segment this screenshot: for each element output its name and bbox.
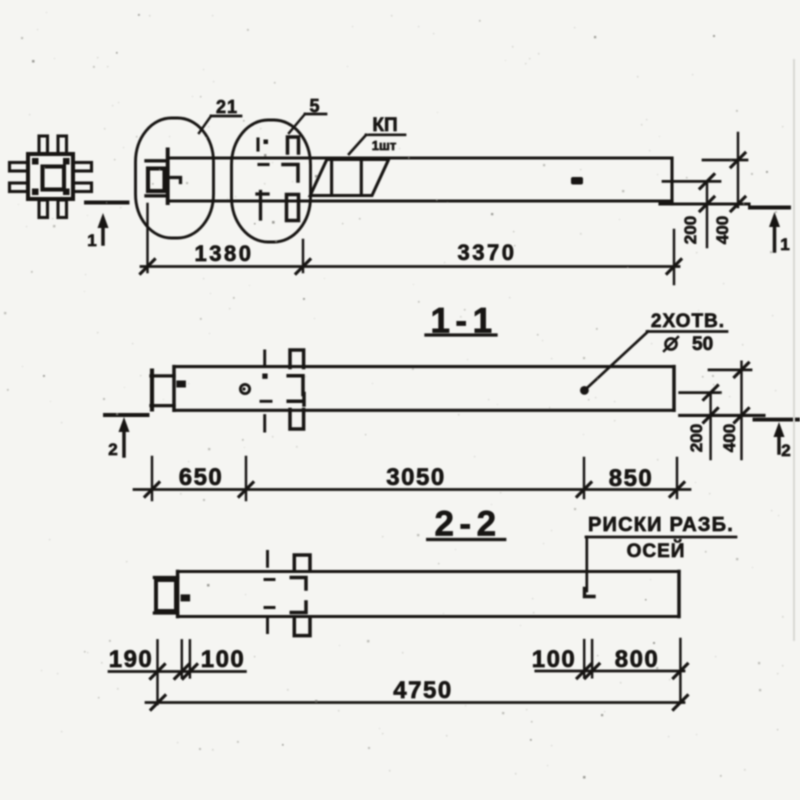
section 1-1: left hook lines <box>151 376 174 406</box>
svg-text:800: 800 <box>615 646 660 673</box>
section 1-1 detail: top staple <box>290 350 304 368</box>
svg-text:400: 400 <box>720 424 739 452</box>
svg-text:100: 100 <box>532 646 577 673</box>
svg-text:2: 2 <box>108 440 117 459</box>
plan view: 400 dimension line vertical <box>737 133 739 207</box>
section 1-1 right: 400 top tick <box>709 369 751 372</box>
svg-text:100: 100 <box>201 646 246 673</box>
svg-text:1: 1 <box>780 235 789 254</box>
section 2-2: dashed centerline <box>266 552 269 633</box>
plan view right: 200 mid tick <box>663 180 720 183</box>
KP plate dividers <box>332 160 362 196</box>
section 2-2 dims left: extension lines <box>158 640 190 704</box>
plan dims: extension lines <box>148 204 675 284</box>
RISKI label underline <box>586 536 736 539</box>
svg-text:21: 21 <box>216 97 238 117</box>
svg-text:200: 200 <box>681 216 700 244</box>
svg-text:1: 1 <box>87 231 96 250</box>
plan view detail 5: upper hook <box>283 165 298 182</box>
section 1-1: left hook edge <box>150 371 154 410</box>
leader for label 5 <box>289 114 305 133</box>
column cross-section symbol: left rebar stubs <box>10 163 28 172</box>
section mark 2 right: line <box>755 418 799 422</box>
svg-text:4750: 4750 <box>393 677 452 704</box>
section 1-1: 400 dim vertical <box>740 362 742 459</box>
overall dim 4750: slashes <box>151 696 687 710</box>
plan view right: bottom tick <box>660 202 749 205</box>
section 1-1 detail: lower hook <box>288 394 304 406</box>
section mark 1 left: line <box>86 201 128 205</box>
section 1-1: 200 dim vertical <box>709 393 711 459</box>
section 1-1: dashed centerline <box>263 351 266 431</box>
svg-text:3370: 3370 <box>458 240 517 265</box>
section 1-1: left dowel blob <box>176 381 186 388</box>
section 1-1: beam outline <box>174 367 674 411</box>
label 21 underline <box>211 115 241 118</box>
section 2-2: left dowel blob <box>181 594 191 601</box>
plan dims: dimension line 1380/3370 <box>141 265 679 268</box>
leader for label 21 <box>199 116 211 133</box>
section 1-1 right: bottom tick <box>680 414 764 417</box>
section mark 2 left: arrow <box>122 430 126 456</box>
plan view: left lifting hook lines <box>146 161 168 196</box>
section mark 1 right: line <box>750 206 789 210</box>
svg-text:РИСКИ РАЗБ.: РИСКИ РАЗБ. <box>588 514 734 536</box>
section 1-1 dims: dimension line <box>134 488 690 491</box>
svg-text:КП: КП <box>372 115 397 136</box>
section 1-1: dim slashes <box>704 363 749 423</box>
section 2-2 detail: bottom staple <box>294 617 310 636</box>
leader 2 holes <box>587 332 648 389</box>
balloon ellipse detail 21 <box>136 118 214 238</box>
KP label underline <box>366 133 405 136</box>
section 2-2: beam edges <box>178 572 679 617</box>
plan dims: slash ticks <box>141 260 682 274</box>
section 1-1 detail: bottom staple <box>290 410 304 430</box>
section 2-2 label underline <box>428 538 505 541</box>
column cross-section symbol: right rebar stubs <box>74 163 92 172</box>
section 1-1 dims: extension lines <box>152 457 677 500</box>
section 1-1: hole dot right <box>580 386 589 395</box>
section mark 2 right: arrow <box>777 433 781 453</box>
section 1-1 label underline <box>426 333 496 336</box>
plan view: left dowel bar <box>170 178 181 183</box>
column cross-section symbol: inner square <box>43 167 65 190</box>
plan view: axis mark blob at right <box>571 177 583 185</box>
plan view detail 5: small dot <box>264 140 269 145</box>
section 2-2 detail: top staple <box>294 555 310 571</box>
svg-text:2: 2 <box>781 441 790 460</box>
overall dim 4750: dimension line <box>146 701 684 704</box>
axis mark on beam 2-2 <box>585 589 595 597</box>
section 2-2 detail: lower hook <box>291 602 306 613</box>
section mark 2 left: line <box>105 413 148 417</box>
section 1-1 dims: slash ticks <box>145 483 684 497</box>
svg-text:1-1: 1-1 <box>430 302 497 341</box>
plan view detail 5: bottom box <box>287 195 299 221</box>
plan view: column body outline <box>168 158 672 201</box>
column cross-section symbol top-left: outer square <box>28 154 73 199</box>
svg-text:190: 190 <box>109 646 154 673</box>
section 1-1: beam left and right edges <box>174 367 674 411</box>
balloon ellipse detail 5 <box>232 120 311 242</box>
svg-text:1380: 1380 <box>195 241 254 266</box>
plan view: left hook box <box>148 169 165 192</box>
section 2-2 dims right: slashes <box>577 664 687 678</box>
svg-text:2ХОТВ.: 2ХОТВ. <box>651 311 725 332</box>
scanner streak right edge <box>793 60 795 640</box>
section 2-2: beam outline <box>178 572 679 617</box>
section 1-1 detail: upper hook <box>288 376 303 395</box>
plan view: column right end edge <box>670 159 673 205</box>
plan view: 200 dimension line vertical <box>706 181 708 247</box>
section 1-1 right: 200 mid tick <box>680 391 721 394</box>
column cross-section symbol: corner dots <box>32 158 70 195</box>
column cross-section symbol: bottom rebar stubs <box>39 200 48 218</box>
section 2-2: left hook lines <box>154 578 177 614</box>
svg-text:850: 850 <box>609 465 654 492</box>
svg-text:650: 650 <box>179 464 224 491</box>
svg-text:400: 400 <box>713 216 732 244</box>
plan view: column left end edge <box>166 150 170 204</box>
section 1-1: hole circle left <box>240 384 249 393</box>
label 5 underline <box>305 113 326 116</box>
plan view detail 5: top staple <box>288 137 299 153</box>
svg-text:2-2: 2-2 <box>434 505 501 544</box>
svg-text:5: 5 <box>309 96 320 116</box>
plan view: dim slashes 200/400 <box>700 153 745 211</box>
plan view right: 400 top tick <box>703 159 747 162</box>
svg-text:200: 200 <box>687 424 706 452</box>
section 2-2 detail: upper hook <box>291 578 306 590</box>
column cross-section symbol: top rebar stubs <box>39 136 48 154</box>
section mark 1 left: arrow <box>101 226 105 244</box>
section 2-2 dims right: dimension line <box>536 670 684 673</box>
svg-text:1шт: 1шт <box>372 138 396 153</box>
KP leader <box>349 135 366 154</box>
plan view detail 5: lower tee bar <box>257 192 268 220</box>
section 2-2 dims left: slashes <box>151 665 197 679</box>
embedded plate KP parallelogram <box>310 160 388 196</box>
section 2-2 dims left: dimension line <box>109 670 245 673</box>
plan view detail 5: mid dash <box>259 163 268 166</box>
section mark 1 right: arrow <box>773 225 777 251</box>
RISKI leader vertical <box>585 537 588 591</box>
section 2-2: left hook box <box>156 580 176 611</box>
plan view detail 5: centerline dash above <box>256 139 259 150</box>
2XOTV underline <box>647 330 727 333</box>
svg-text:50: 50 <box>692 334 713 355</box>
svg-text:ОСЕЙ: ОСЕЙ <box>627 540 686 562</box>
section 2-2 dims right: extension lines <box>584 639 680 703</box>
svg-text:3050: 3050 <box>386 464 445 491</box>
diameter symbol <box>666 339 677 350</box>
